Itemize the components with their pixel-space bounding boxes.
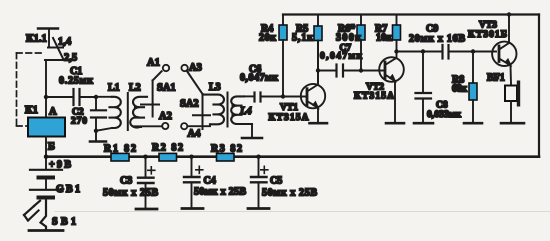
svg-text:КТ301Б: КТ301Б [468,30,507,40]
svg-text:А: А [49,107,57,118]
terminal A4 [181,123,187,129]
node C2 bottom [94,129,98,133]
svg-text:A2: A2 [159,111,172,122]
battery GB1 [30,170,62,198]
svg-text:A4: A4 [188,129,202,140]
svg-text:R1 82: R1 82 [104,144,136,155]
resistor R3 82 [217,153,235,161]
svg-text:20к: 20к [259,33,276,44]
resistor R8 68k [469,52,477,123]
inductor L4 [231,96,252,124]
wire C9 line [397,51,442,53]
svg-text:50мк x 25В: 50мк x 25В [262,188,317,199]
svg-text:A1: A1 [147,57,160,68]
svg-text:КТ315А: КТ315А [269,113,309,123]
svg-text:2,5: 2,5 [64,53,77,64]
svg-text:50мк x 25В: 50мк x 25В [194,187,246,198]
svg-text:C3: C3 [120,176,132,187]
svg-text:SA2: SA2 [180,99,199,110]
ground bar C4 [182,207,203,210]
svg-text:L4: L4 [239,106,252,117]
svg-text:SB1: SB1 [52,217,76,228]
svg-text:R2 82: R2 82 [152,143,183,154]
node C4 [189,155,193,159]
svg-text:10к: 10к [376,33,392,44]
ground bar C5 [248,207,269,210]
capacitor C8 0,033mk [416,52,432,123]
wire node to L1 [96,96,112,98]
wire L1 bottom [96,128,112,131]
node C8 tap [421,49,425,53]
svg-text:1,4: 1,4 [58,37,72,48]
ground bar VT1 [310,122,328,125]
ground bar L4 [242,137,262,140]
node C5 [256,155,260,159]
svg-text:300к: 300к [336,33,361,44]
svg-text:SA1: SA1 [157,83,176,94]
ground bar SB1 [29,229,63,232]
node C1 tap [44,95,48,99]
resistor R6* 300k [357,15,365,71]
svg-text:C5: C5 [270,176,282,187]
switch SA1 [141,71,162,116]
terminal A1 [163,65,169,71]
wire +9V rail [46,155,539,158]
transistor VT1 KT315A [301,41,325,123]
capacitor C6 0,047mk [244,93,282,102]
wire L4 to ground [251,124,253,137]
wire A4 to L3 [188,124,211,126]
svg-text:50мк x 25В: 50мк x 25В [103,188,158,199]
ground bar R8 [464,122,482,125]
wire base VT1 [283,96,306,98]
node collector VT3 [507,12,511,16]
node C2 top [94,95,98,99]
ground bar C2 [90,140,106,143]
pushbutton SB1 [24,201,46,229]
svg-text:0.25мк: 0.25мк [59,76,93,87]
svg-text:Б: Б [48,142,55,153]
wire left column [45,60,47,118]
svg-text:0,047мк: 0,047мк [240,73,278,84]
svg-text:5,1к: 5,1к [292,33,313,44]
core L1L2 [127,93,129,130]
resistor R1 82 [111,153,129,161]
relay contact K1.1 [45,38,63,60]
svg-text:VT1: VT1 [280,103,298,113]
svg-text:L3: L3 [209,82,221,93]
ground bar VT2 [386,122,404,125]
resistor R4 20k [279,15,287,97]
svg-text:К1: К1 [25,105,38,116]
scan artifact line [55,211,550,213]
node rail left [44,155,48,159]
svg-text:A3: A3 [189,63,202,74]
node R8 tap [471,49,475,53]
antenna WA1 [38,29,58,48]
resistor R7 10k [393,15,401,52]
dashed link relay [17,53,43,126]
svg-text:L2: L2 [129,83,141,94]
svg-text:VT3: VT3 [479,21,497,31]
capacitor C7 0,047mk [318,65,384,77]
wire right edge [538,15,540,157]
earphone BF1 [505,81,520,123]
terminal A2 [162,123,168,129]
switch SA2 [187,72,210,129]
node collector VT2 [394,49,398,53]
node collector C7 tap [316,68,320,72]
svg-text:L1: L1 [108,83,120,94]
wire A2 to L2 [134,125,163,127]
node R4 base [281,94,285,98]
svg-text:68к: 68к [452,84,467,95]
capacitor C9 20mk x 16V [443,45,497,59]
svg-text:GB1: GB1 [56,184,80,195]
node R6 [359,68,363,72]
wire top supply rail [283,13,539,15]
svg-text:КТ315А: КТ315А [354,92,394,102]
terminal A3 [181,65,187,71]
svg-text:C4: C4 [204,176,216,187]
inductor L2 [130,97,147,128]
capacitor C2 270 [91,97,106,132]
svg-text:270: 270 [71,117,87,127]
inductor L3 [203,95,225,125]
svg-text:C8: C8 [436,101,448,111]
core L3L4 [227,93,229,127]
capacitor C1 0,25mk [74,89,80,105]
transistor VT2 KT315A [379,52,404,123]
resistor R2 82 [159,153,177,161]
capacitor C5 50mk x 25V [251,157,268,208]
wire battery to SB1 [45,200,47,204]
svg-text:0,033мк: 0,033мк [427,110,462,120]
resistor R5 5,1k [314,15,322,85]
svg-text:BF1: BF1 [487,73,505,84]
transistor VT3 KT301B [492,15,516,85]
ground bar C3 [136,208,157,211]
wire to C1 [46,96,72,98]
capacitor C3 50mk x 25V [138,157,155,208]
wire K1 to rail [45,137,47,170]
svg-text:R3 82: R3 82 [211,144,242,155]
ground bar C8 [414,122,433,125]
wire C1 to node [81,96,97,98]
svg-text:К1.1: К1.1 [26,34,47,45]
wire node to ground [95,131,97,141]
svg-text:20мк x 16В: 20мк x 16В [409,34,465,45]
capacitor C4 50mk x 25V [184,157,203,208]
inductor L1 [110,97,121,128]
ground bar BF1 [501,122,524,125]
node C3 [143,155,147,159]
relay coil K1 [28,118,65,137]
